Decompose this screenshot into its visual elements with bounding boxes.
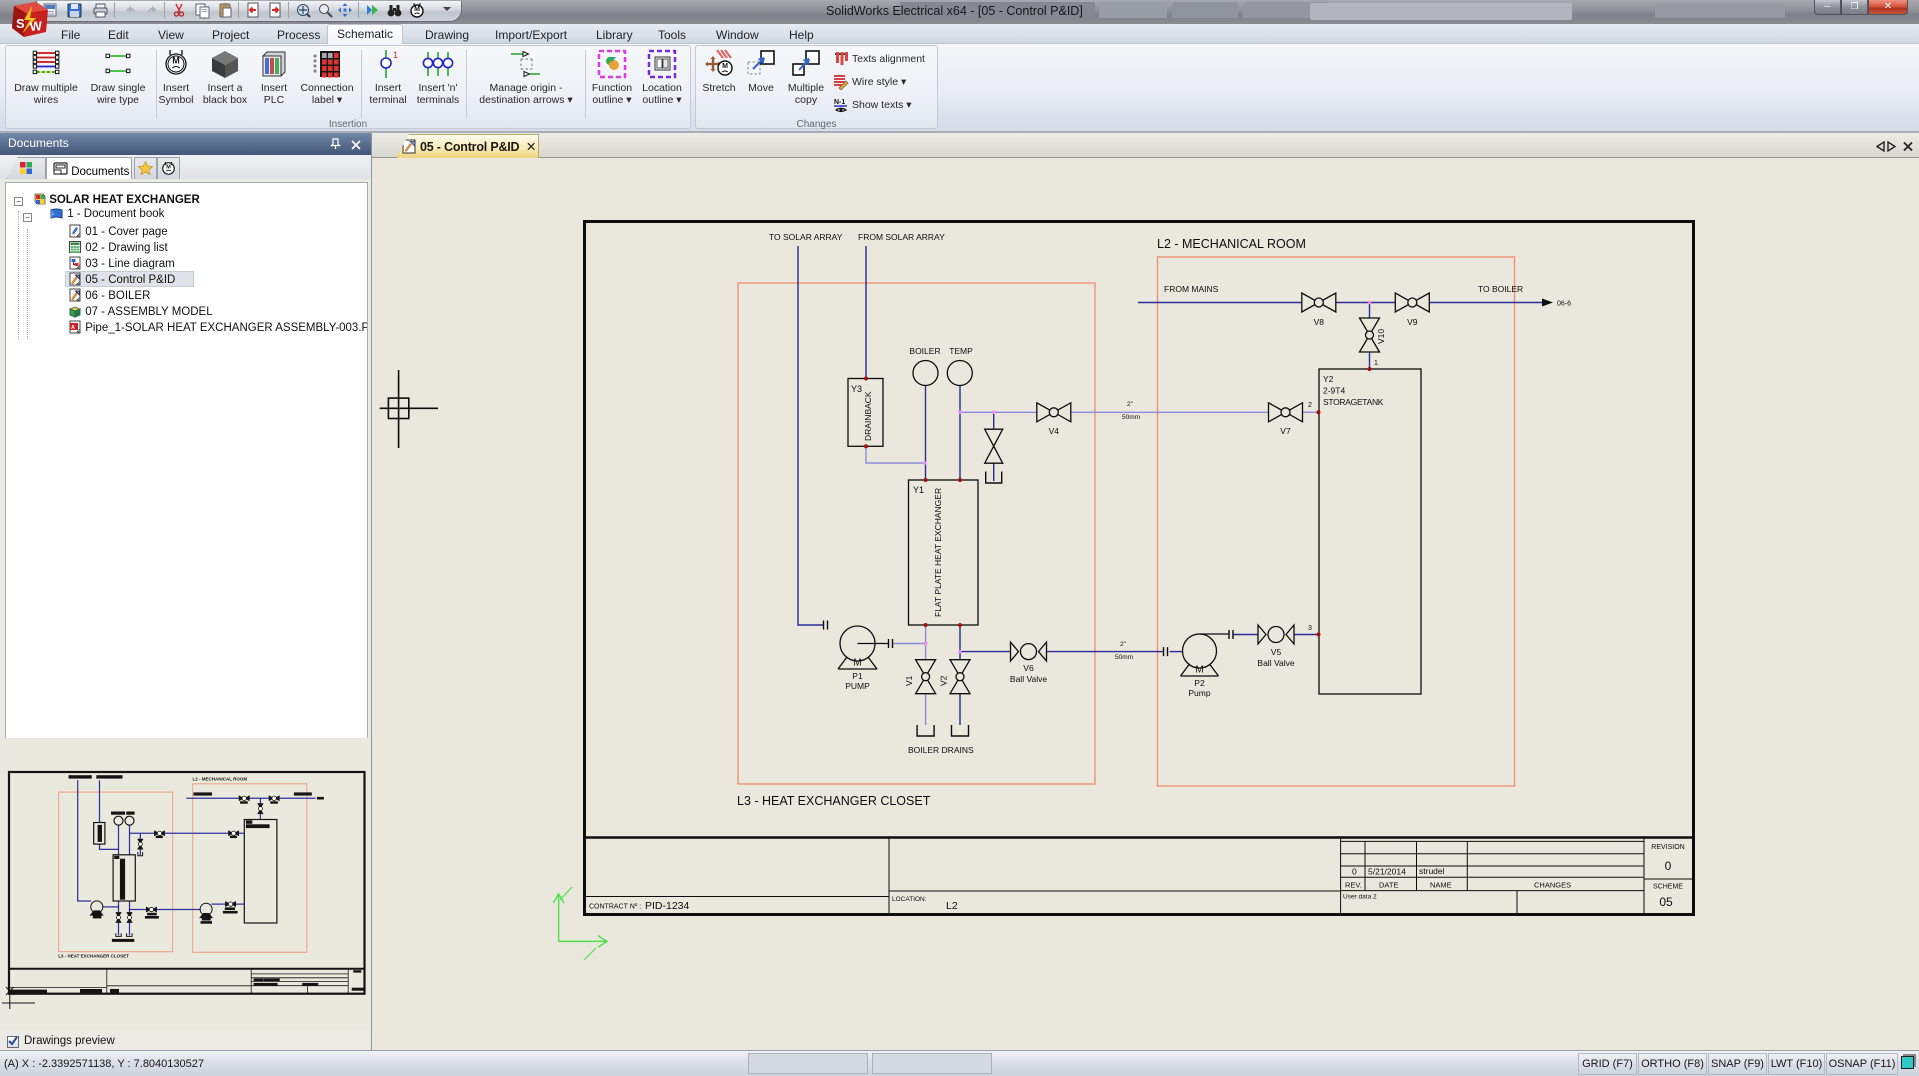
valve V3 (985, 429, 1003, 463)
preview frame (9, 772, 365, 994)
svg-text:N-1: N-1 (834, 99, 845, 106)
svg-text:M: M (1195, 665, 1203, 676)
valve V7 (1269, 403, 1303, 422)
gauge BOILER (909, 346, 940, 386)
svg-text:Ball Valve: Ball Valve (1257, 658, 1294, 668)
wire valve V9 TO BOILER (1429, 302, 1542, 304)
svg-text:REVISION: REVISION (1651, 844, 1684, 851)
svg-text:P2: P2 (1194, 678, 1205, 688)
svg-text:05: 05 (1659, 895, 1673, 909)
drain bracket (952, 725, 969, 736)
svg-text:W: W (29, 18, 43, 34)
svg-text:0: 0 (1665, 859, 1672, 873)
node Y1 bottom pin 2 (958, 623, 962, 627)
wire FROM SOLAR ARRAY to Y3 drainback top (865, 246, 867, 379)
UCS axis icon (553, 887, 607, 960)
svg-text:FLAT PLATE HEAT EXCHANGER: FLAT PLATE HEAT EXCHANGER (933, 488, 943, 617)
svg-text:M: M (166, 165, 171, 171)
svg-text:2-9T4: 2-9T4 (1323, 386, 1345, 396)
preview text bars (69, 775, 324, 942)
wire TEMP gauge stem to Y1 top pin (959, 385, 961, 480)
wire Y3 drainback bottom to boiler stem junction (866, 446, 925, 463)
svg-text:REV.: REV. (1345, 881, 1362, 890)
wire P2 discharge flange to ball valve V5 (1234, 634, 1259, 636)
svg-text:DATE: DATE (1379, 881, 1398, 890)
svg-text:V2: V2 (939, 675, 949, 686)
svg-text:50mm: 50mm (1122, 414, 1140, 421)
drawing frame border (585, 222, 1694, 915)
wire valve V7 to tank pin 2 (1303, 411, 1319, 413)
svg-text:06-6: 06-6 (1557, 301, 1571, 308)
valve V8 (1302, 293, 1336, 312)
node Y1 top pin 1 (924, 478, 928, 482)
svg-text:Ball Valve: Ball Valve (1010, 674, 1047, 684)
valve V1 (916, 660, 936, 694)
wire Y1 bottom pin through junction to valve V2 (959, 625, 961, 660)
valve V4 (1037, 403, 1071, 422)
wire junction to valve V3 (993, 412, 995, 429)
storage tank Y2 (1319, 369, 1421, 694)
svg-text:M: M (853, 658, 861, 669)
svg-text:CHANGES: CHANGES (1534, 881, 1571, 890)
preview pumps (91, 901, 213, 918)
valve V5 (1258, 625, 1294, 644)
flange P2 suction (1164, 647, 1168, 656)
wire FROM MAINS to valve V8 (1138, 302, 1302, 304)
svg-text:DRAINBACK: DRAINBACK (863, 391, 873, 441)
node Y1 bottom pin 1 (924, 623, 928, 627)
svg-text:V7: V7 (1280, 426, 1291, 436)
junction drainback-boiler stem (923, 461, 926, 464)
svg-text:V4: V4 (1049, 426, 1060, 436)
svg-text:STORAGETANK: STORAGETANK (1323, 397, 1384, 407)
svg-text:V10: V10 (1376, 329, 1386, 344)
svg-text:A: A (71, 325, 75, 331)
wire valve V3 to drain (993, 464, 995, 482)
svg-text:Pump: Pump (1188, 688, 1210, 698)
preview drains (116, 852, 143, 936)
node tank pin 2 (1317, 410, 1321, 414)
pump P2 (1181, 634, 1229, 676)
svg-text:1: 1 (393, 50, 398, 60)
svg-text:BOILER DRAINS: BOILER DRAINS (908, 745, 974, 755)
location outline L2 MECHANICAL ROOM (1158, 257, 1515, 786)
wire valve V2 to boiler drain (959, 694, 961, 725)
valve V2 (950, 660, 970, 694)
valve V10 (1360, 318, 1380, 352)
wire valve V8 to valve V9 (1336, 302, 1396, 304)
svg-text:PUMP: PUMP (845, 681, 870, 691)
svg-text:V1: V1 (904, 675, 914, 686)
svg-text:0: 0 (1352, 867, 1357, 877)
wire P1 discharge flange to junction (893, 643, 926, 645)
svg-text:PID-1234: PID-1234 (645, 900, 690, 912)
svg-text:M: M (414, 6, 420, 13)
flange P2 discharge (1229, 630, 1233, 639)
svg-text:P1: P1 (852, 671, 863, 681)
preview valves (115, 795, 279, 923)
wire ball valve V5 to tank pin 3 (1294, 634, 1319, 636)
flange P1 suction (824, 621, 828, 630)
node tank pin 1 (1368, 367, 1372, 371)
svg-text:L2 - MECHANICAL ROOM: L2 - MECHANICAL ROOM (1157, 237, 1306, 251)
svg-text:L3 - HEAT EXCHANGER CLOSET: L3 - HEAT EXCHANGER CLOSET (737, 794, 931, 808)
drain bracket (917, 725, 934, 736)
svg-text:NAME: NAME (1430, 881, 1452, 890)
preview wires (78, 780, 316, 935)
title block texts (589, 844, 1685, 912)
svg-text:M: M (172, 56, 180, 66)
svg-text:FROM SOLAR ARRAY: FROM SOLAR ARRAY (858, 232, 945, 242)
wire TEMP junction to valve V4 (960, 411, 1037, 413)
svg-text:strudel: strudel (1419, 866, 1445, 876)
svg-text:L3 - HEAT EXCHANGER CLOSET: L3 - HEAT EXCHANGER CLOSET (58, 954, 129, 959)
drain bracket (986, 472, 1002, 484)
wire BOILER gauge stem to Y1 top pin (925, 385, 927, 480)
junction V3 branch (992, 411, 995, 414)
preview location outlines (59, 792, 173, 952)
svg-text:2: 2 (1308, 402, 1312, 409)
wire ball valve V6 to P2 suction flange, 2in 50mm run (1047, 651, 1164, 653)
svg-text:TO SOLAR ARRAY: TO SOLAR ARRAY (769, 232, 843, 242)
svg-text:2": 2" (1127, 401, 1134, 408)
node Y1 top pin 2 (958, 478, 962, 482)
wire valve V1 to boiler drain (925, 694, 927, 725)
TO BOILER arrow (1542, 299, 1553, 307)
junction V2-V6 branch (958, 650, 961, 653)
svg-text:Y2: Y2 (1323, 374, 1334, 384)
svg-text:SCHEME: SCHEME (1653, 884, 1683, 891)
svg-text:3: 3 (1308, 625, 1312, 632)
svg-text:CONTRACT Nº :: CONTRACT Nº : (589, 904, 641, 911)
preview UCS (2, 987, 35, 1009)
heat exchanger Y1 (909, 480, 979, 625)
svg-text:TO BOILER: TO BOILER (1478, 284, 1523, 294)
svg-text:LOCATION:: LOCATION: (892, 896, 927, 903)
svg-text:5/21/2014: 5/21/2014 (1368, 867, 1406, 877)
svg-text:V8: V8 (1314, 317, 1325, 327)
crosshair cursor (380, 370, 438, 448)
valve V9 (1395, 293, 1429, 312)
flange P1 discharge (889, 639, 893, 648)
gauge TEMP (947, 346, 973, 386)
svg-text:FROM MAINS: FROM MAINS (1164, 284, 1219, 294)
junction P1 discharge (924, 642, 927, 645)
svg-text:Y1: Y1 (913, 485, 924, 495)
title block top separator (586, 836, 1693, 839)
node Y3 bottom pin (864, 444, 868, 448)
main drawing canvas (372, 158, 1919, 1050)
wire junction to valve V10 (1369, 303, 1371, 319)
svg-text:V6: V6 (1023, 663, 1034, 673)
junction TEMP stem (958, 411, 961, 414)
wire flange to pump P2 (1170, 651, 1183, 653)
svg-text:2": 2" (1120, 641, 1127, 648)
pump P1 (838, 626, 888, 669)
junction V10 branch (1368, 301, 1371, 304)
svg-text:50mm: 50mm (1115, 654, 1133, 661)
preview title bars (10, 970, 364, 993)
svg-text:V9: V9 (1407, 317, 1418, 327)
svg-text:BOILER: BOILER (909, 346, 940, 356)
title block lines (586, 838, 1693, 914)
preview components (94, 816, 277, 923)
svg-text:User data 2: User data 2 (1343, 894, 1377, 901)
wire valve V4 to valve V7, 2in 50mm run (1071, 411, 1269, 413)
location outline L3 HEAT EXCHANGER CLOSET (738, 283, 1095, 784)
wire junction to ball valve V6 (960, 651, 1011, 653)
svg-text:1: 1 (1374, 360, 1378, 367)
drainback Y3 (848, 379, 883, 447)
wire TO SOLAR ARRAY down to P1 suction flange (798, 246, 823, 625)
svg-text:TEMP: TEMP (949, 346, 973, 356)
svg-text:V5: V5 (1271, 647, 1282, 657)
node Y3 top pin (864, 377, 868, 381)
svg-text:M: M (722, 63, 728, 70)
wire valve V10 to tank pin 1 (1369, 353, 1371, 370)
valve V6 (1011, 642, 1047, 661)
preview paper (4, 740, 366, 1030)
svg-text:L2 - MECHANICAL ROOM: L2 - MECHANICAL ROOM (193, 777, 248, 782)
wire Y1 bottom pin through junction to valve V1 (925, 625, 927, 660)
svg-text:L2: L2 (946, 900, 958, 912)
svg-text:Y3: Y3 (851, 384, 862, 394)
node tank pin 3 (1317, 633, 1321, 637)
svg-text:S: S (16, 16, 25, 31)
